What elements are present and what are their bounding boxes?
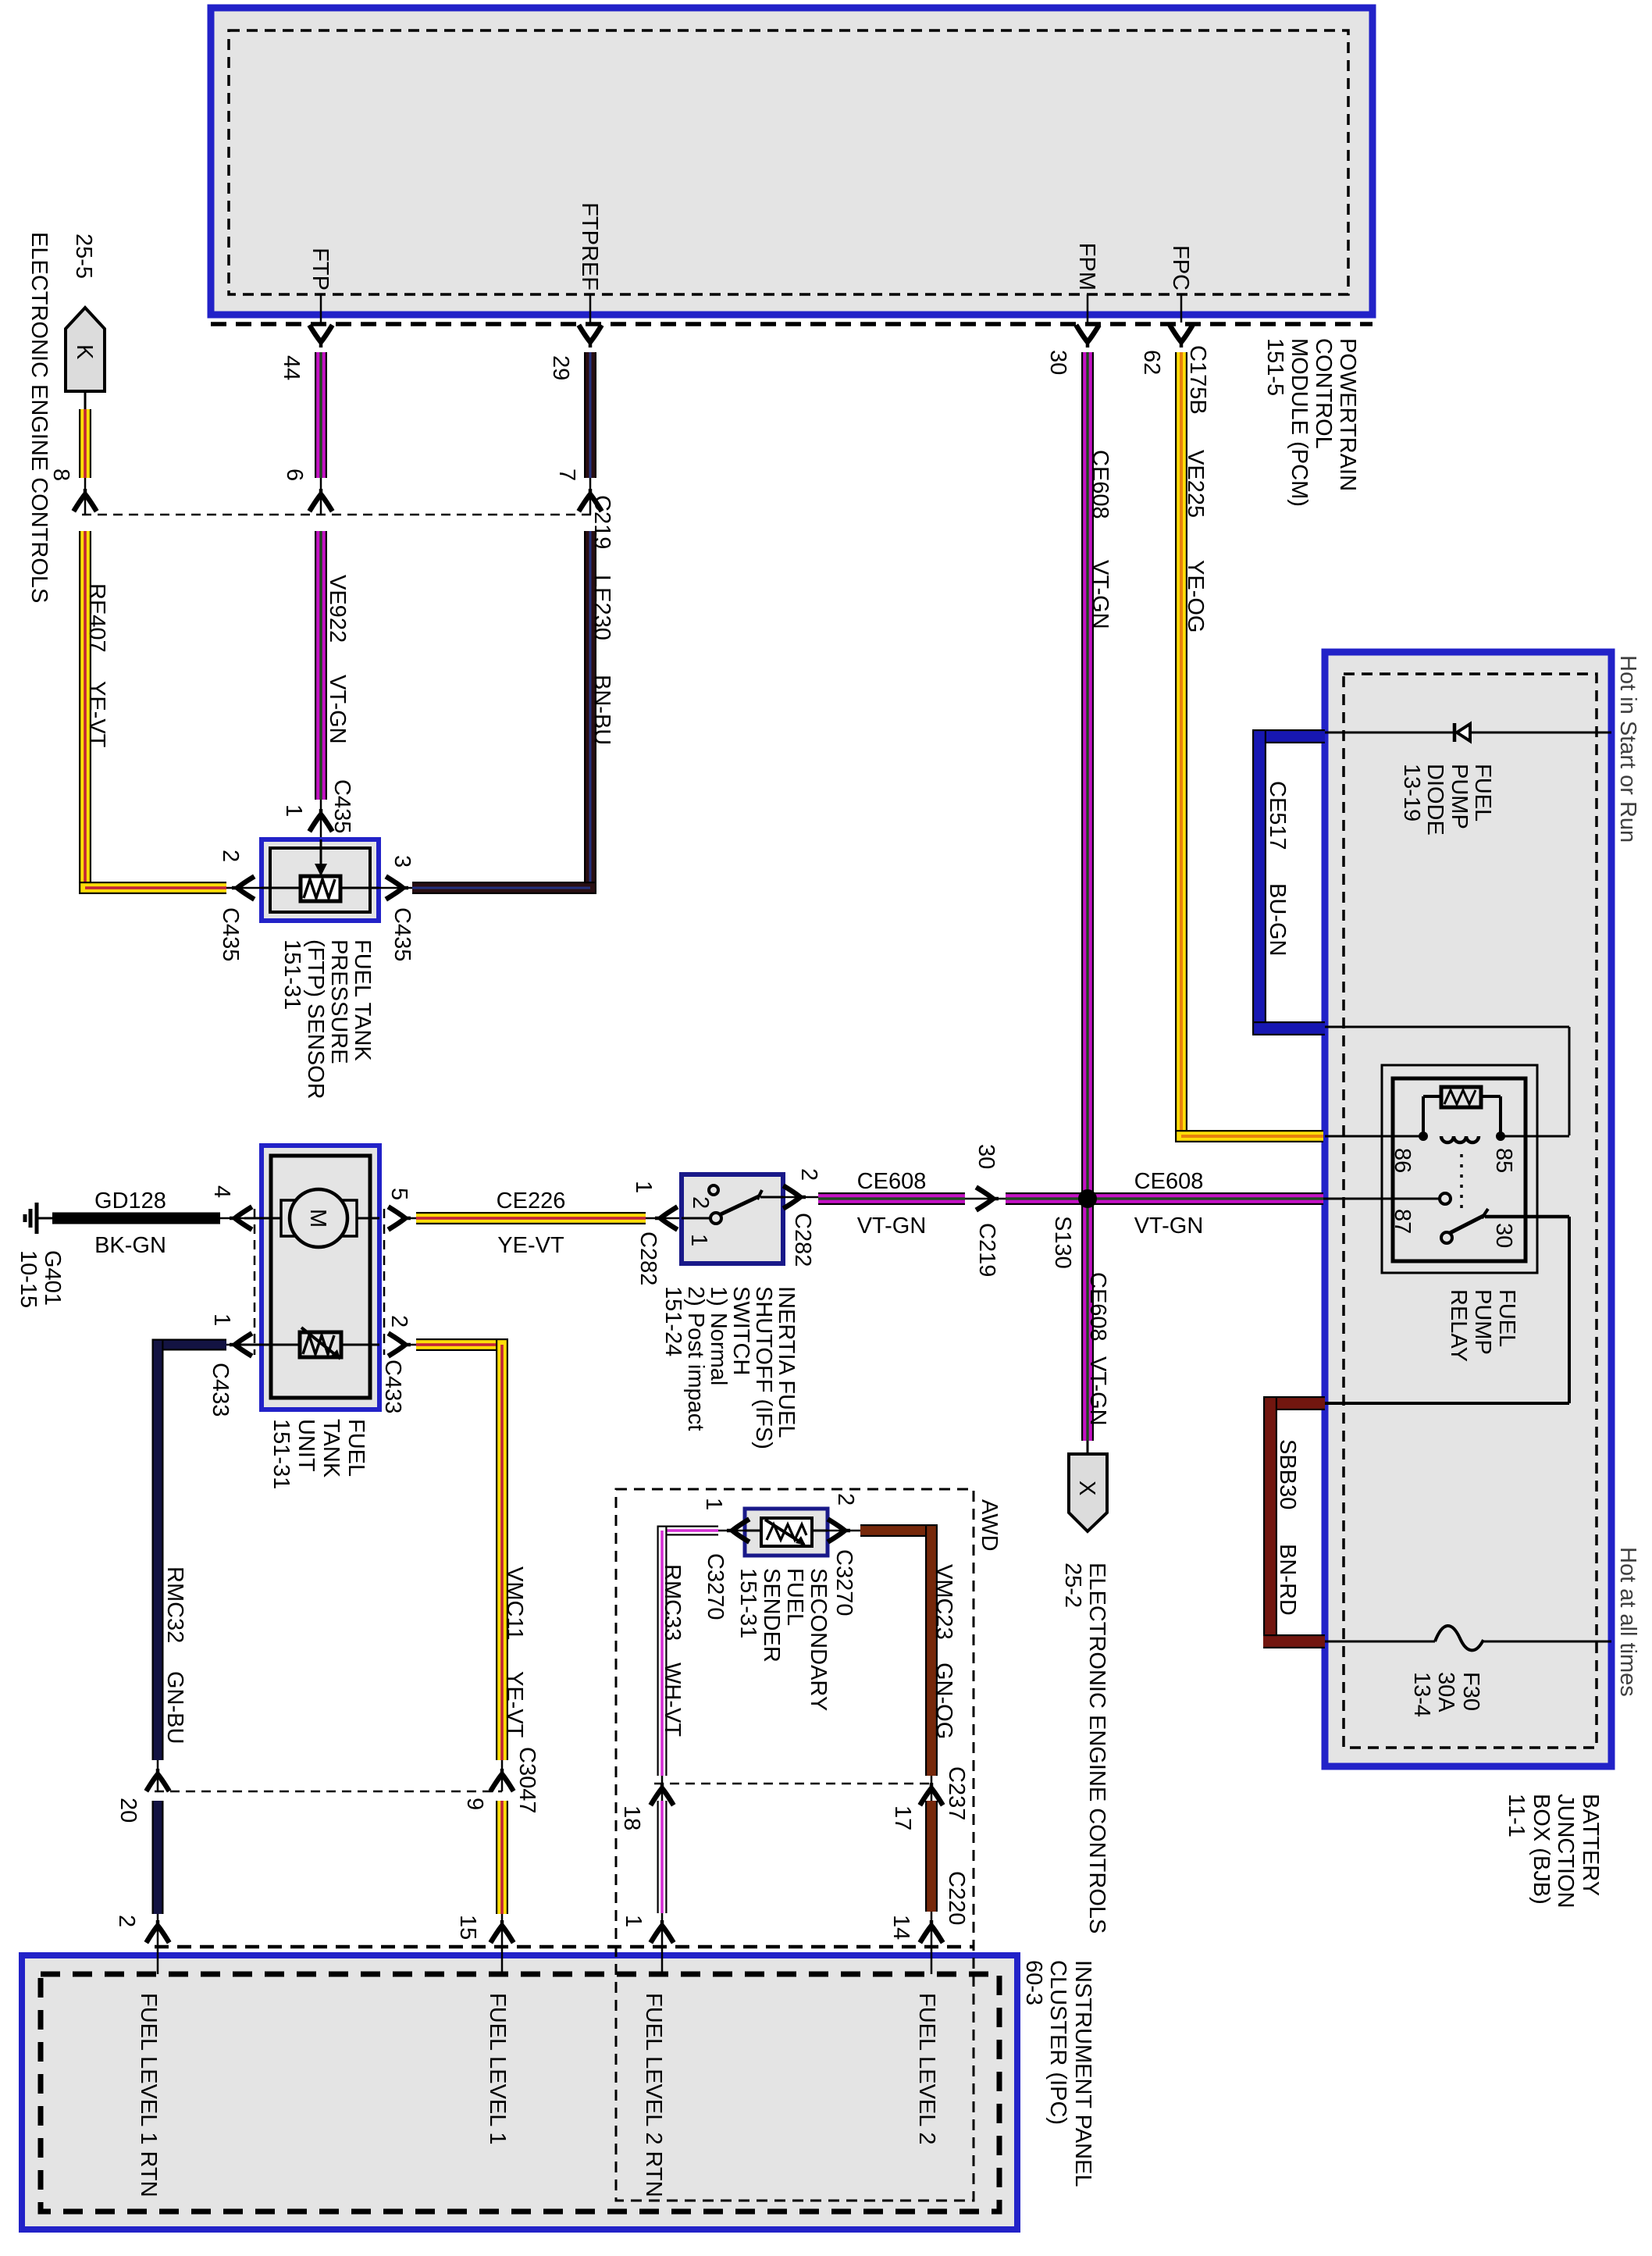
svg-text:FUEL: FUEL bbox=[782, 1568, 807, 1626]
svg-text:151-5: 151-5 bbox=[1262, 338, 1287, 396]
svg-text:YE-VT: YE-VT bbox=[84, 681, 109, 748]
svg-text:62: 62 bbox=[1139, 350, 1164, 375]
svg-text:SBB30: SBB30 bbox=[1275, 1439, 1300, 1509]
svg-text:INSTRUMENT PANEL: INSTRUMENT PANEL bbox=[1070, 1960, 1095, 2187]
svg-text:F30: F30 bbox=[1458, 1672, 1483, 1711]
svg-text:PUMP: PUMP bbox=[1470, 1289, 1495, 1355]
svg-text:CE226: CE226 bbox=[497, 1189, 566, 1214]
svg-text:CE517: CE517 bbox=[1265, 781, 1290, 850]
svg-text:C435: C435 bbox=[390, 907, 415, 961]
svg-text:VT-GN: VT-GN bbox=[325, 675, 350, 744]
svg-text:FTP: FTP bbox=[308, 248, 333, 290]
svg-text:UNIT: UNIT bbox=[294, 1419, 319, 1472]
svg-text:JUNCTION: JUNCTION bbox=[1553, 1794, 1578, 1909]
svg-text:VT-GN: VT-GN bbox=[1085, 1356, 1110, 1426]
svg-text:RELAY: RELAY bbox=[1446, 1289, 1471, 1362]
svg-text:2: 2 bbox=[114, 1915, 139, 1927]
svg-text:C435: C435 bbox=[218, 907, 243, 961]
svg-text:2) Post impact: 2) Post impact bbox=[683, 1286, 708, 1431]
svg-text:2: 2 bbox=[386, 1315, 411, 1328]
svg-text:FUEL LEVEL 1 RTN: FUEL LEVEL 1 RTN bbox=[136, 1993, 161, 2197]
svg-text:C435: C435 bbox=[329, 779, 354, 833]
svg-text:1: 1 bbox=[209, 1313, 234, 1326]
svg-text:C237: C237 bbox=[944, 1766, 969, 1820]
svg-text:C282: C282 bbox=[790, 1213, 815, 1267]
svg-text:FPC: FPC bbox=[1168, 245, 1193, 290]
svg-text:M: M bbox=[305, 1209, 330, 1228]
svg-text:WH-VT: WH-VT bbox=[660, 1663, 685, 1737]
svg-text:13-4: 13-4 bbox=[1409, 1672, 1434, 1717]
svg-text:X: X bbox=[1074, 1481, 1099, 1495]
svg-text:DIODE: DIODE bbox=[1422, 764, 1447, 836]
svg-text:MODULE (PCM): MODULE (PCM) bbox=[1287, 338, 1312, 507]
svg-text:FUEL LEVEL 2 RTN: FUEL LEVEL 2 RTN bbox=[641, 1993, 666, 2197]
svg-text:FPM: FPM bbox=[1074, 243, 1099, 290]
svg-text:VT-GN: VT-GN bbox=[1134, 1214, 1204, 1238]
svg-text:29: 29 bbox=[548, 355, 573, 380]
svg-text:44: 44 bbox=[279, 355, 304, 380]
svg-text:PUMP: PUMP bbox=[1447, 764, 1472, 829]
svg-text:C433: C433 bbox=[380, 1360, 405, 1413]
svg-text:SWITCH: SWITCH bbox=[728, 1286, 753, 1375]
svg-text:30: 30 bbox=[974, 1144, 999, 1169]
svg-text:6: 6 bbox=[282, 469, 307, 481]
svg-text:2: 2 bbox=[688, 1196, 713, 1209]
svg-text:ELECTRONIC ENGINE CONTROLS: ELECTRONIC ENGINE CONTROLS bbox=[1084, 1563, 1109, 1933]
svg-text:C3047: C3047 bbox=[514, 1747, 539, 1813]
svg-text:20: 20 bbox=[116, 1798, 141, 1823]
svg-text:POWERTRAIN: POWERTRAIN bbox=[1335, 338, 1360, 491]
svg-text:25-2: 25-2 bbox=[1060, 1563, 1085, 1608]
svg-text:9: 9 bbox=[462, 1798, 487, 1810]
svg-text:FTPREF: FTPREF bbox=[577, 202, 602, 290]
svg-text:S130: S130 bbox=[1050, 1216, 1075, 1269]
svg-text:CONTROL: CONTROL bbox=[1311, 338, 1336, 449]
svg-text:2: 2 bbox=[796, 1168, 821, 1181]
svg-text:Hot in Start or Run: Hot in Start or Run bbox=[1615, 655, 1640, 843]
svg-text:VMC11: VMC11 bbox=[502, 1566, 527, 1641]
svg-text:18: 18 bbox=[619, 1805, 644, 1830]
svg-text:CE608: CE608 bbox=[1088, 450, 1113, 519]
svg-text:C175B: C175B bbox=[1185, 345, 1210, 415]
svg-text:15: 15 bbox=[455, 1915, 480, 1940]
svg-text:2: 2 bbox=[218, 850, 243, 862]
svg-text:BK-GN: BK-GN bbox=[94, 1233, 166, 1258]
svg-text:Hot at all times: Hot at all times bbox=[1615, 1547, 1640, 1697]
svg-text:YE-VT: YE-VT bbox=[497, 1233, 564, 1258]
svg-text:C433: C433 bbox=[208, 1363, 233, 1417]
svg-text:87: 87 bbox=[1390, 1209, 1415, 1234]
svg-text:7: 7 bbox=[554, 469, 579, 481]
svg-text:RMC32: RMC32 bbox=[162, 1566, 187, 1643]
svg-text:CE608: CE608 bbox=[1085, 1272, 1110, 1342]
svg-text:GD128: GD128 bbox=[94, 1189, 166, 1214]
svg-text:VT-GN: VT-GN bbox=[1088, 560, 1113, 629]
svg-text:60-3: 60-3 bbox=[1021, 1960, 1046, 2005]
svg-text:FUEL LEVEL 2: FUEL LEVEL 2 bbox=[914, 1993, 939, 2145]
svg-text:1: 1 bbox=[631, 1181, 656, 1193]
svg-text:C282: C282 bbox=[636, 1231, 660, 1285]
svg-text:C3270: C3270 bbox=[703, 1553, 728, 1620]
svg-text:14: 14 bbox=[888, 1915, 913, 1940]
svg-text:FUEL TANK: FUEL TANK bbox=[350, 939, 375, 1061]
svg-text:FUEL: FUEL bbox=[1494, 1289, 1519, 1347]
svg-text:K: K bbox=[72, 344, 97, 360]
svg-text:1: 1 bbox=[281, 804, 306, 817]
svg-text:1: 1 bbox=[701, 1498, 726, 1510]
svg-text:VE922: VE922 bbox=[325, 575, 350, 643]
svg-text:151-31: 151-31 bbox=[735, 1568, 760, 1638]
svg-text:85: 85 bbox=[1491, 1148, 1516, 1173]
svg-text:17: 17 bbox=[890, 1805, 915, 1830]
svg-text:1) Normal: 1) Normal bbox=[706, 1286, 731, 1385]
svg-text:8: 8 bbox=[48, 469, 73, 481]
svg-text:(FTP) SENSOR: (FTP) SENSOR bbox=[303, 939, 328, 1099]
svg-text:30A: 30A bbox=[1433, 1672, 1458, 1712]
svg-text:1: 1 bbox=[621, 1915, 646, 1927]
svg-text:86: 86 bbox=[1390, 1148, 1415, 1173]
svg-text:3: 3 bbox=[390, 855, 415, 868]
svg-text:G401: G401 bbox=[40, 1250, 65, 1306]
svg-text:GN-OG: GN-OG bbox=[931, 1663, 956, 1739]
svg-text:RE407: RE407 bbox=[84, 583, 109, 653]
svg-text:RMC33: RMC33 bbox=[660, 1564, 685, 1641]
svg-text:151-31: 151-31 bbox=[269, 1419, 294, 1489]
svg-text:SECONDARY: SECONDARY bbox=[806, 1568, 831, 1711]
svg-text:VMC23: VMC23 bbox=[931, 1564, 956, 1640]
svg-text:4: 4 bbox=[209, 1185, 234, 1198]
svg-text:25-5: 25-5 bbox=[71, 233, 96, 279]
svg-text:BU-GN: BU-GN bbox=[1265, 883, 1290, 956]
svg-text:VE225: VE225 bbox=[1183, 450, 1208, 518]
svg-text:1: 1 bbox=[686, 1234, 711, 1246]
svg-text:30: 30 bbox=[1045, 350, 1070, 375]
svg-text:11-1: 11-1 bbox=[1504, 1794, 1529, 1837]
svg-text:VT-GN: VT-GN bbox=[857, 1214, 927, 1238]
svg-text:C3270: C3270 bbox=[831, 1549, 856, 1616]
svg-text:C219: C219 bbox=[589, 495, 614, 549]
svg-text:SENDER: SENDER bbox=[759, 1568, 784, 1663]
svg-text:GN-BU: GN-BU bbox=[162, 1671, 187, 1744]
svg-text:13-19: 13-19 bbox=[1399, 764, 1424, 821]
svg-text:YE-OG: YE-OG bbox=[1183, 560, 1208, 633]
svg-text:CE608: CE608 bbox=[857, 1169, 927, 1194]
svg-text:LE230: LE230 bbox=[589, 575, 614, 640]
svg-text:BN-BU: BN-BU bbox=[589, 675, 614, 745]
svg-text:C219: C219 bbox=[974, 1223, 999, 1277]
svg-text:ELECTRONIC ENGINE CONTROLS: ELECTRONIC ENGINE CONTROLS bbox=[27, 232, 52, 603]
svg-text:30: 30 bbox=[1491, 1223, 1516, 1248]
svg-text:PRESSURE: PRESSURE bbox=[326, 939, 351, 1064]
svg-text:BOX (BJB): BOX (BJB) bbox=[1529, 1794, 1554, 1905]
svg-text:151-31: 151-31 bbox=[279, 939, 304, 1010]
svg-text:CE608: CE608 bbox=[1134, 1169, 1204, 1194]
svg-text:FUEL: FUEL bbox=[1470, 764, 1495, 821]
svg-text:AWD: AWD bbox=[977, 1499, 1002, 1552]
svg-text:YE-VT: YE-VT bbox=[502, 1671, 527, 1738]
svg-text:FUEL: FUEL bbox=[344, 1419, 368, 1477]
svg-text:INERTIA FUEL: INERTIA FUEL bbox=[774, 1286, 799, 1438]
svg-text:FUEL LEVEL 1: FUEL LEVEL 1 bbox=[485, 1993, 510, 2145]
svg-text:10-15: 10-15 bbox=[16, 1250, 41, 1308]
svg-text:BATTERY: BATTERY bbox=[1578, 1794, 1603, 1896]
svg-text:C220: C220 bbox=[944, 1871, 969, 1925]
svg-text:5: 5 bbox=[386, 1188, 411, 1200]
svg-text:CLUSTER (IPC): CLUSTER (IPC) bbox=[1045, 1960, 1070, 2125]
svg-text:2: 2 bbox=[833, 1493, 858, 1506]
svg-text:151-24: 151-24 bbox=[660, 1286, 685, 1356]
svg-text:BN-RD: BN-RD bbox=[1275, 1544, 1300, 1616]
svg-text:TANK: TANK bbox=[319, 1419, 344, 1478]
svg-text:SHUTOFF (IFS): SHUTOFF (IFS) bbox=[751, 1286, 776, 1449]
